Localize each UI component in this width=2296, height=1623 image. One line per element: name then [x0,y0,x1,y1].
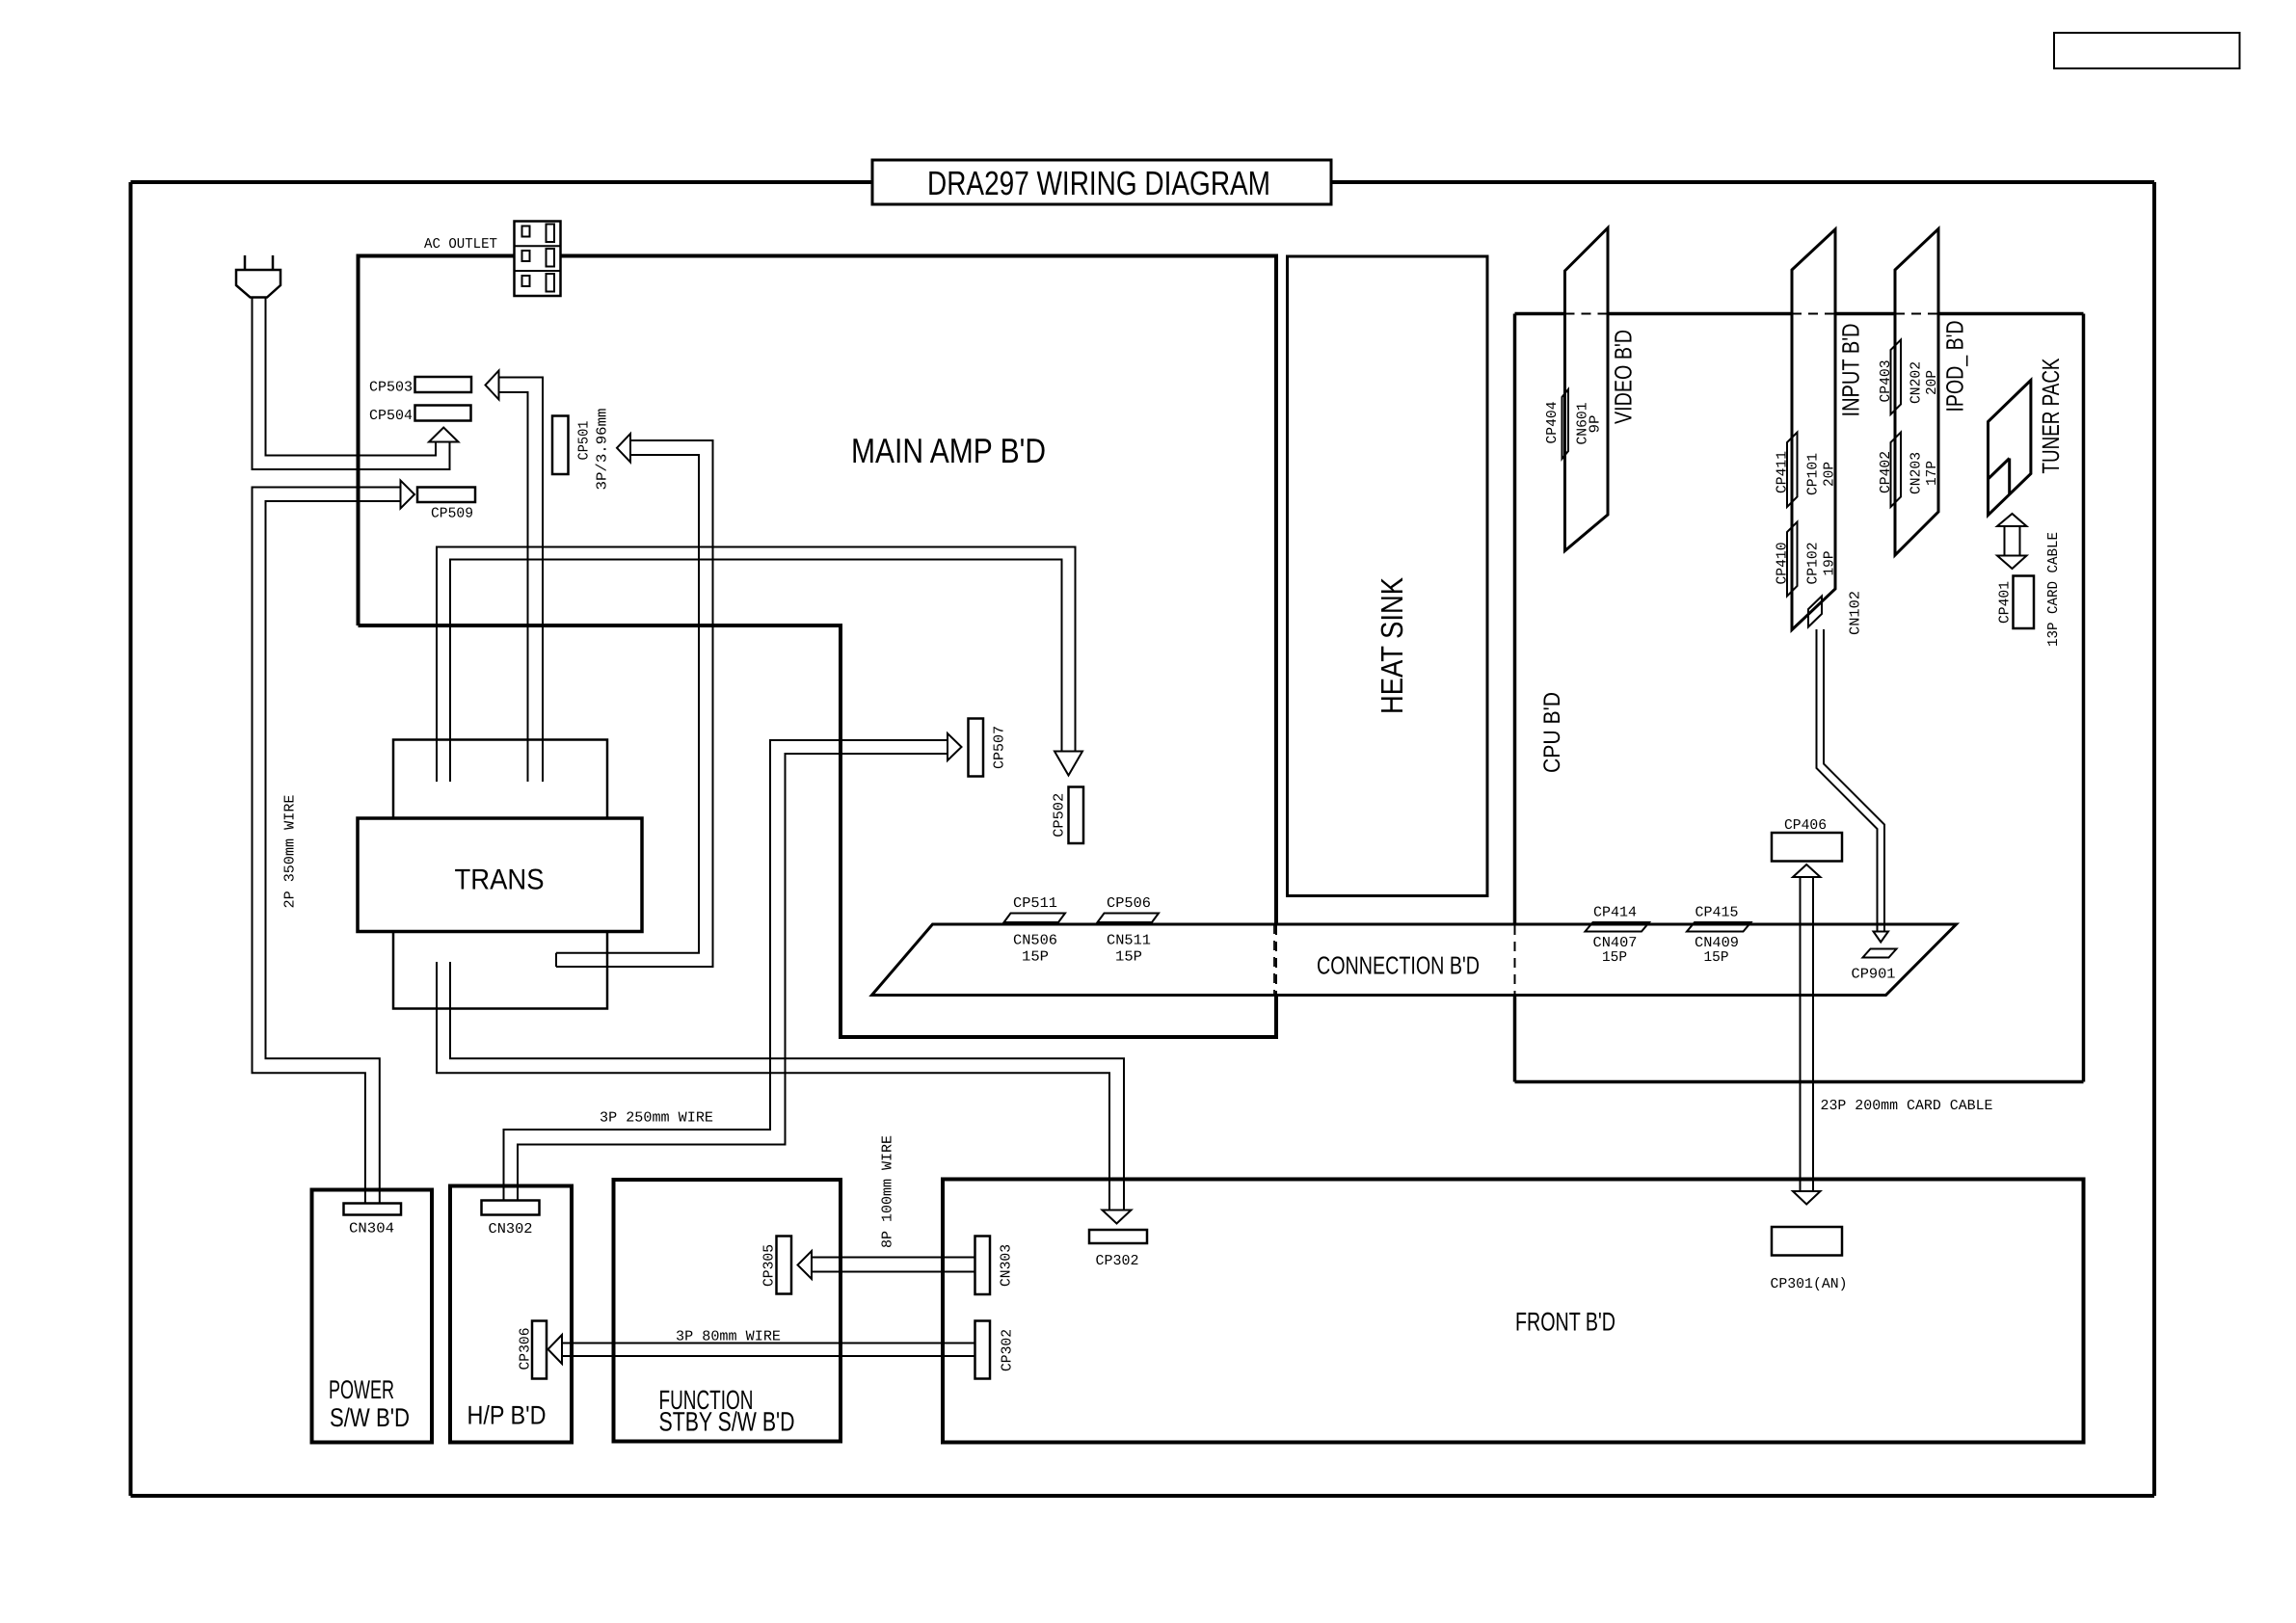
svg-text:CP305: CP305 [761,1244,778,1287]
wire TRANS to CP302 front [437,962,1109,1211]
wire TRANS to CP501 [556,440,713,967]
wire front CP302 to CP306 [562,1343,975,1344]
board IPOD_ B'D [1895,229,1938,556]
arrowhead into front CP302 [1103,1211,1132,1224]
svg-text:CP301(AN): CP301(AN) [1771,1276,1848,1292]
svg-text:15P: 15P [1602,949,1627,966]
connector CP403 [1891,340,1902,415]
arrowhead into CP503 [486,371,499,400]
wire CN102 to CP901 [1817,629,1878,932]
svg-text:MAIN AMP B'D: MAIN AMP B'D [851,431,1046,470]
svg-text:20P: 20P [1924,370,1940,395]
board FUNCTION STBY S/W B'D [614,1180,841,1442]
connector CP404 [1562,389,1569,459]
svg-text:CP503: CP503 [369,380,413,396]
connector CP503 [415,377,472,392]
connector CN303 [975,1237,991,1295]
connector CN304 [344,1204,402,1215]
transformer outer box [393,740,607,1009]
svg-text:9P: 9P [1588,415,1604,434]
svg-text:FRONT B'D: FRONT B'D [1515,1308,1615,1337]
svg-text:CN506: CN506 [1013,933,1057,949]
svg-text:CP507: CP507 [992,726,1008,769]
svg-text:CPU B'D: CPU B'D [1539,692,1565,773]
connector CN102 notch [1808,597,1822,627]
svg-text:DRA297 WIRING DIAGRAM: DRA297 WIRING DIAGRAM [927,165,1270,202]
connector CP502 [1069,787,1084,844]
wire CN302 to CP507 [504,740,948,1201]
arrowhead into CP301 [1793,1191,1821,1205]
svg-text:CP402: CP402 [1878,451,1894,493]
svg-text:CP406: CP406 [1784,817,1827,834]
svg-text:CP411: CP411 [1775,451,1791,493]
board CONNECTION B'D [872,924,1957,996]
wire CN303 to CP305 [812,1257,975,1259]
svg-text:CP102: CP102 [1805,543,1822,585]
svg-text:15P: 15P [1704,949,1729,966]
svg-text:20P: 20P [1822,462,1838,487]
svg-text:CONNECTION B'D: CONNECTION B'D [1317,951,1480,980]
connector CP411 [1787,433,1798,508]
wire TRANS to CP502 [437,547,1076,783]
board FRONT B'D [943,1180,2084,1443]
transformer TRANS box [358,818,642,932]
board CPU B'D outline [1515,312,1565,316]
connector CP509 [417,488,475,503]
svg-text:3P 80mm WIRE: 3P 80mm WIRE [676,1329,781,1345]
arrowhead into CP502 [1055,752,1082,776]
arrowhead into CP504 [429,428,459,442]
svg-text:CP509: CP509 [431,506,473,522]
svg-text:CN302: CN302 [489,1221,533,1237]
svg-text:17P: 17P [1924,461,1940,486]
connector CP306 [532,1321,547,1379]
connector CP406 [1772,833,1842,862]
svg-text:STBY S/W B'D: STBY S/W B'D [659,1407,795,1437]
svg-text:CP506: CP506 [1107,895,1151,912]
board H/P B'D [450,1186,572,1443]
outer border frame [131,180,2155,184]
svg-text:CP306: CP306 [518,1328,534,1370]
svg-text:H/P B'D: H/P B'D [467,1401,547,1430]
svg-text:S/W B'D: S/W B'D [330,1403,410,1432]
svg-text:CP410: CP410 [1775,543,1791,585]
svg-text:CP403: CP403 [1878,360,1894,403]
svg-text:CP511: CP511 [1013,895,1057,912]
svg-text:CP404: CP404 [1544,402,1561,444]
svg-text:CP415: CP415 [1695,905,1739,921]
svg-text:POWER: POWER [329,1375,394,1404]
svg-text:CN304: CN304 [349,1221,394,1237]
title box [872,160,1331,204]
svg-text:2P 350mm WIRE: 2P 350mm WIRE [281,795,298,909]
svg-text:CN303: CN303 [999,1244,1015,1287]
heat sink box [1288,256,1488,896]
svg-text:CP101: CP101 [1805,453,1822,495]
svg-text:CP302: CP302 [1000,1329,1016,1371]
svg-text:VIDEO B'D: VIDEO B'D [1611,330,1638,424]
svg-text:CN102: CN102 [1848,591,1864,635]
connector CP301(AN) [1772,1227,1842,1256]
board VIDEO B'D [1565,228,1609,551]
arrowhead into CP305 [798,1251,813,1279]
connector CP507 [969,719,984,777]
wire 23P card cable CP406 to CP301 [1800,877,1802,1191]
connector CP511 [1004,914,1066,923]
svg-text:3P 250mm WIRE: 3P 250mm WIRE [600,1110,713,1127]
connector CN302 [482,1201,540,1215]
svg-text:CP401: CP401 [1997,581,2014,624]
connector CP504 [415,406,471,421]
svg-text:23P 200mm CARD CABLE: 23P 200mm CARD CABLE [1821,1098,1993,1114]
svg-text:CP502: CP502 [1052,793,1068,838]
arrowhead into CP509 [401,481,415,509]
connector CP410 [1787,522,1798,597]
top-right reference box [2054,33,2240,68]
svg-text:INPUT B'D: INPUT B'D [1838,324,1865,417]
connector front CP302 side [975,1321,991,1379]
wire 2P plug to CP504 arrow [253,298,450,470]
AC power plug [244,255,247,270]
connector CP305 [777,1237,792,1294]
tuner pack outline [1989,381,2031,516]
svg-text:13P CARD CABLE: 13P CARD CABLE [2045,532,2062,647]
svg-text:TRANS: TRANS [455,865,545,896]
svg-text:IPOD_ B'D: IPOD_ B'D [1942,321,1969,412]
connector CP402 [1891,433,1902,508]
svg-text:15P: 15P [1115,949,1142,966]
arrowhead into CP406 [1793,865,1821,877]
connector CP401 [2014,576,2035,629]
connector CP415 [1687,922,1751,932]
double arrow tuner to CP401 [2004,526,2006,556]
arrowhead into CP507 [948,733,962,760]
svg-text:CP504: CP504 [369,408,413,424]
svg-text:CN202: CN202 [1909,361,1925,404]
svg-text:CP901: CP901 [1852,967,1896,983]
wire 2P to CP509 and CN304 [253,488,401,1204]
svg-text:8P 100mm WIRE: 8P 100mm WIRE [880,1135,896,1248]
svg-text:AC OUTLET: AC OUTLET [424,236,497,253]
connector CP501 [552,416,569,475]
svg-text:CP302: CP302 [1096,1253,1139,1269]
svg-text:HEAT SINK: HEAT SINK [1375,577,1409,714]
svg-text:TUNER PACK: TUNER PACK [2038,358,2065,473]
connector CP506 [1098,914,1160,923]
svg-text:CP501: CP501 [576,421,593,461]
svg-text:19P: 19P [1822,551,1838,576]
board MAIN AMP B'D outline [359,256,1277,926]
connector CP901 [1863,949,1897,958]
wire TRANS to CP503 [499,378,544,783]
svg-text:15P: 15P [1022,949,1049,966]
svg-text:CP414: CP414 [1593,905,1637,921]
board INPUT B'D [1792,229,1835,630]
arrowhead into CP501 [617,434,630,463]
svg-text:CN511: CN511 [1107,933,1151,949]
AC outlet connector [515,222,561,297]
connector front CP302 top [1089,1230,1147,1243]
svg-text:3P/3.96mm: 3P/3.96mm [595,409,611,491]
arrowhead into CP306 [548,1335,563,1364]
svg-text:CN203: CN203 [1909,452,1925,494]
board POWER S/W B'D [312,1190,433,1443]
connector CP414 [1586,922,1650,932]
arrowhead into CP901 [1874,932,1889,943]
